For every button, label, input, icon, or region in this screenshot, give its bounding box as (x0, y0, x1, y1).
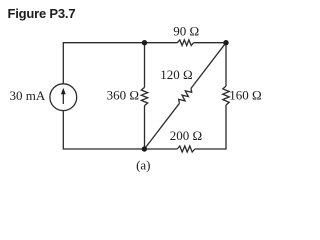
wire left bottom (63, 111, 177, 149)
wire top right segment (194, 42, 226, 44)
svg-text:Figure P3.7: Figure P3.7 (8, 6, 76, 21)
resistor 120ohm diagonal zigzag (179, 88, 192, 103)
resistor 160ohm zigzag (223, 86, 229, 105)
svg-text:(a): (a) (136, 158, 150, 173)
wire top: left corner to 90-ohm resistor (63, 43, 177, 84)
svg-text:120 Ω: 120 Ω (160, 67, 192, 82)
wire diagonal upper (191, 43, 226, 89)
svg-text:30 mA: 30 mA (10, 88, 46, 103)
svg-text:160 Ω: 160 Ω (229, 87, 261, 102)
node dot top middle (142, 40, 147, 45)
wire right top segment (225, 43, 227, 86)
svg-text:90 Ω: 90 Ω (173, 24, 199, 39)
node dot top right (223, 40, 228, 45)
node dot bottom middle (142, 146, 147, 151)
current source I1 circle (50, 84, 77, 111)
wire middle rail top (144, 43, 146, 88)
resistor 200ohm zigzag (177, 146, 195, 152)
wire diagonal lower (144, 103, 179, 149)
resistor R 90ohm zigzag (177, 40, 193, 46)
wire middle rail bottom (144, 106, 146, 149)
current source arrowhead (61, 88, 66, 94)
svg-text:200 Ω: 200 Ω (170, 128, 202, 143)
wire bottom right segment (195, 105, 226, 149)
resistor 360ohm zigzag (141, 87, 147, 105)
current source arrow shaft (62, 93, 64, 105)
svg-text:360 Ω: 360 Ω (107, 87, 139, 102)
